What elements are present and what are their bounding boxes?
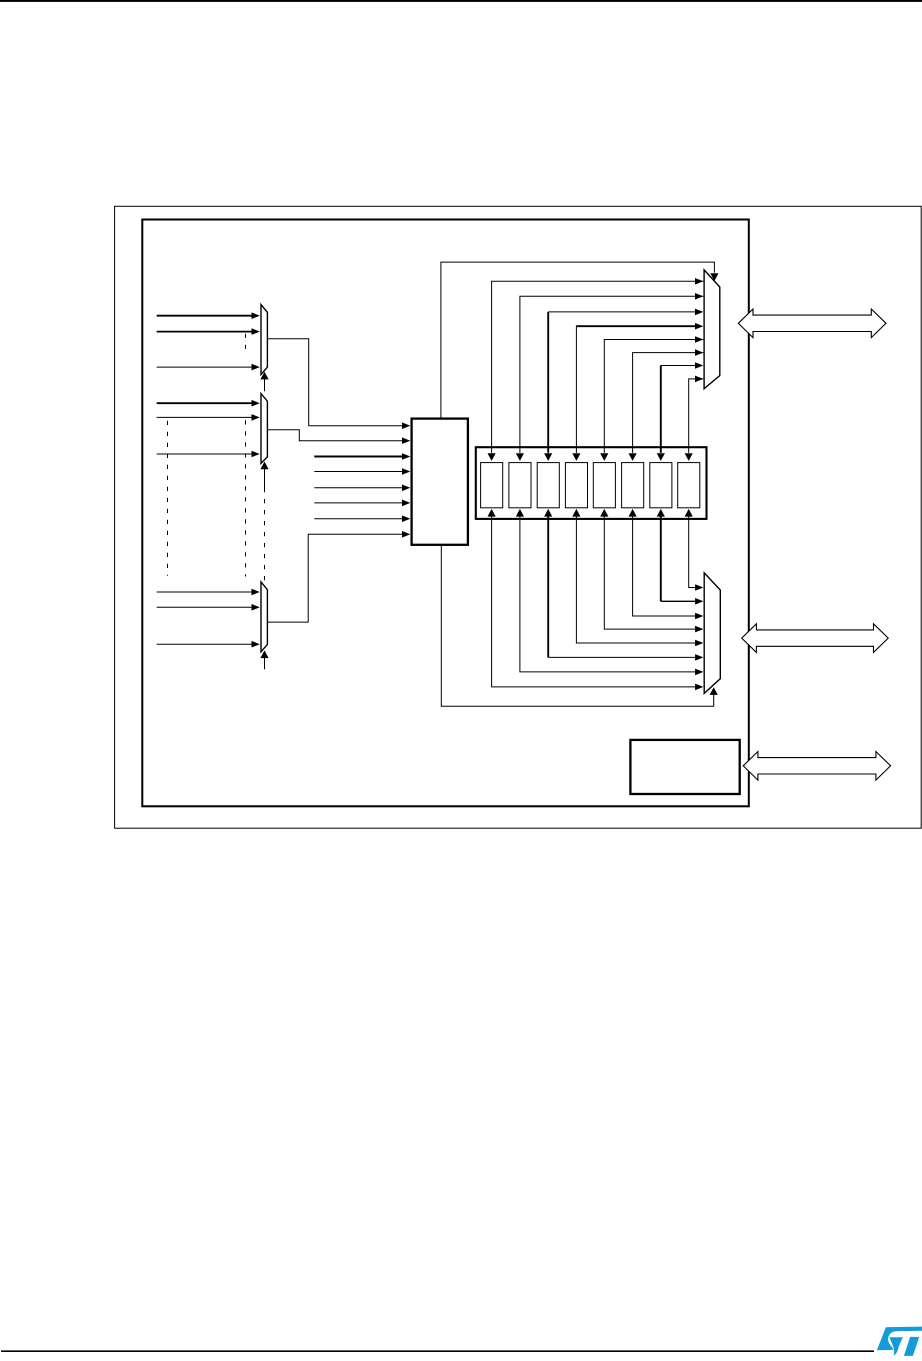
wire: controller input 5 bbox=[314, 485, 410, 492]
page footer rule bbox=[1, 1350, 874, 1352]
wire: register R3 to mux M5 input 6 (bus) bbox=[544, 509, 703, 661]
block U2 interface bbox=[630, 740, 739, 794]
wire: register R2 to mux M4 input 2 bbox=[516, 293, 704, 461]
wire: controller bottom to mux M5 select bbox=[441, 546, 718, 707]
wire: register R8 to mux M5 input 1 bbox=[685, 509, 704, 591]
register R5 bbox=[593, 463, 615, 508]
port: bidirectional bus arrow 3 bbox=[743, 752, 890, 781]
register R4 bbox=[565, 463, 587, 508]
wire: register R3 to mux M4 input 3 (bus) bbox=[544, 309, 703, 461]
wire: mux M1 select bbox=[260, 372, 268, 392]
register R8 bbox=[678, 463, 700, 508]
wire: register R4 to mux M5 input 5 bbox=[572, 509, 703, 646]
wire: controller top to mux M4 select bbox=[441, 262, 719, 418]
wire: dashed ellipsis mid column bbox=[245, 420, 247, 576]
wire: mux M1 output to controller input 1 bbox=[268, 339, 411, 429]
figure frame bbox=[115, 206, 922, 828]
wire: mux M2 input 3 bbox=[157, 451, 260, 458]
wire: mux M2 output to controller input 2 bbox=[268, 430, 411, 444]
wire: mux M3 output to controller input 8 bbox=[268, 531, 411, 622]
mux M5 bbox=[704, 573, 720, 694]
register R1 bbox=[481, 463, 503, 508]
mux M2 bbox=[261, 394, 267, 464]
wire: controller input 4 bbox=[314, 468, 410, 475]
wire: mux M2 input 1 bbox=[157, 400, 260, 407]
register R6 bbox=[622, 463, 644, 508]
port: bidirectional bus arrow 1 bbox=[738, 309, 886, 338]
register R7 bbox=[650, 463, 672, 508]
port: bidirectional bus arrow 2 bbox=[742, 624, 889, 653]
wire: register R5 to mux M5 input 4 bbox=[600, 509, 703, 633]
block U1 controller bbox=[412, 419, 468, 545]
wire: mux M1 input 1 bbox=[157, 312, 260, 319]
ST logo bbox=[877, 1327, 922, 1356]
wire: mux M3 select bbox=[260, 650, 268, 669]
wire: register R5 to mux M4 input 5 bbox=[600, 336, 703, 461]
wire: register R1 to mux M5 input 8 bbox=[488, 509, 704, 690]
wire: mux M3 input 1 bbox=[157, 589, 260, 596]
wire: dashed ellipsis left column bbox=[167, 421, 169, 576]
page header rule bbox=[0, 0, 922, 2]
register R3 bbox=[537, 463, 559, 508]
wire: mux M2 input 2 bbox=[157, 414, 260, 421]
wire: register R8 to mux M4 input 8 bbox=[685, 376, 704, 461]
block diagram border bbox=[142, 220, 749, 807]
wire: mux M3 input 3 bbox=[157, 641, 260, 648]
wire: controller input 7 bbox=[314, 515, 410, 522]
wire: register R7 to mux M5 input 2 (bus) bbox=[657, 509, 704, 605]
wire: register R4 to mux M4 input 4 (bus) bbox=[572, 323, 703, 461]
wire: register R6 to mux M4 input 6 bbox=[629, 349, 704, 461]
wire: mux M1 input 2 bbox=[157, 328, 260, 335]
wire: mux M3 input 2 bbox=[157, 604, 260, 611]
wire: controller input 6 bbox=[314, 500, 410, 507]
wire: register R6 to mux M5 input 3 bbox=[629, 509, 704, 619]
mux M1 bbox=[261, 305, 267, 375]
wire: mux M2 select dashed continuation bbox=[264, 488, 266, 583]
wire: dashed ellipsis below M1 input 2 bbox=[245, 334, 247, 349]
wire: controller input 3 (bus) bbox=[314, 453, 410, 460]
wire: mux M2 select bbox=[260, 462, 268, 489]
mux M3 bbox=[261, 582, 267, 652]
register R2 bbox=[509, 463, 531, 508]
mux M4 bbox=[704, 270, 720, 389]
register file box bbox=[476, 447, 707, 519]
wire: register R2 to mux M5 input 7 bbox=[516, 509, 704, 675]
wire: register R1 to mux M4 input 1 bbox=[488, 278, 704, 461]
wire: mux M1 input 3 bbox=[157, 364, 260, 371]
wire: register R7 to mux M4 input 7 (bus) bbox=[657, 362, 704, 461]
